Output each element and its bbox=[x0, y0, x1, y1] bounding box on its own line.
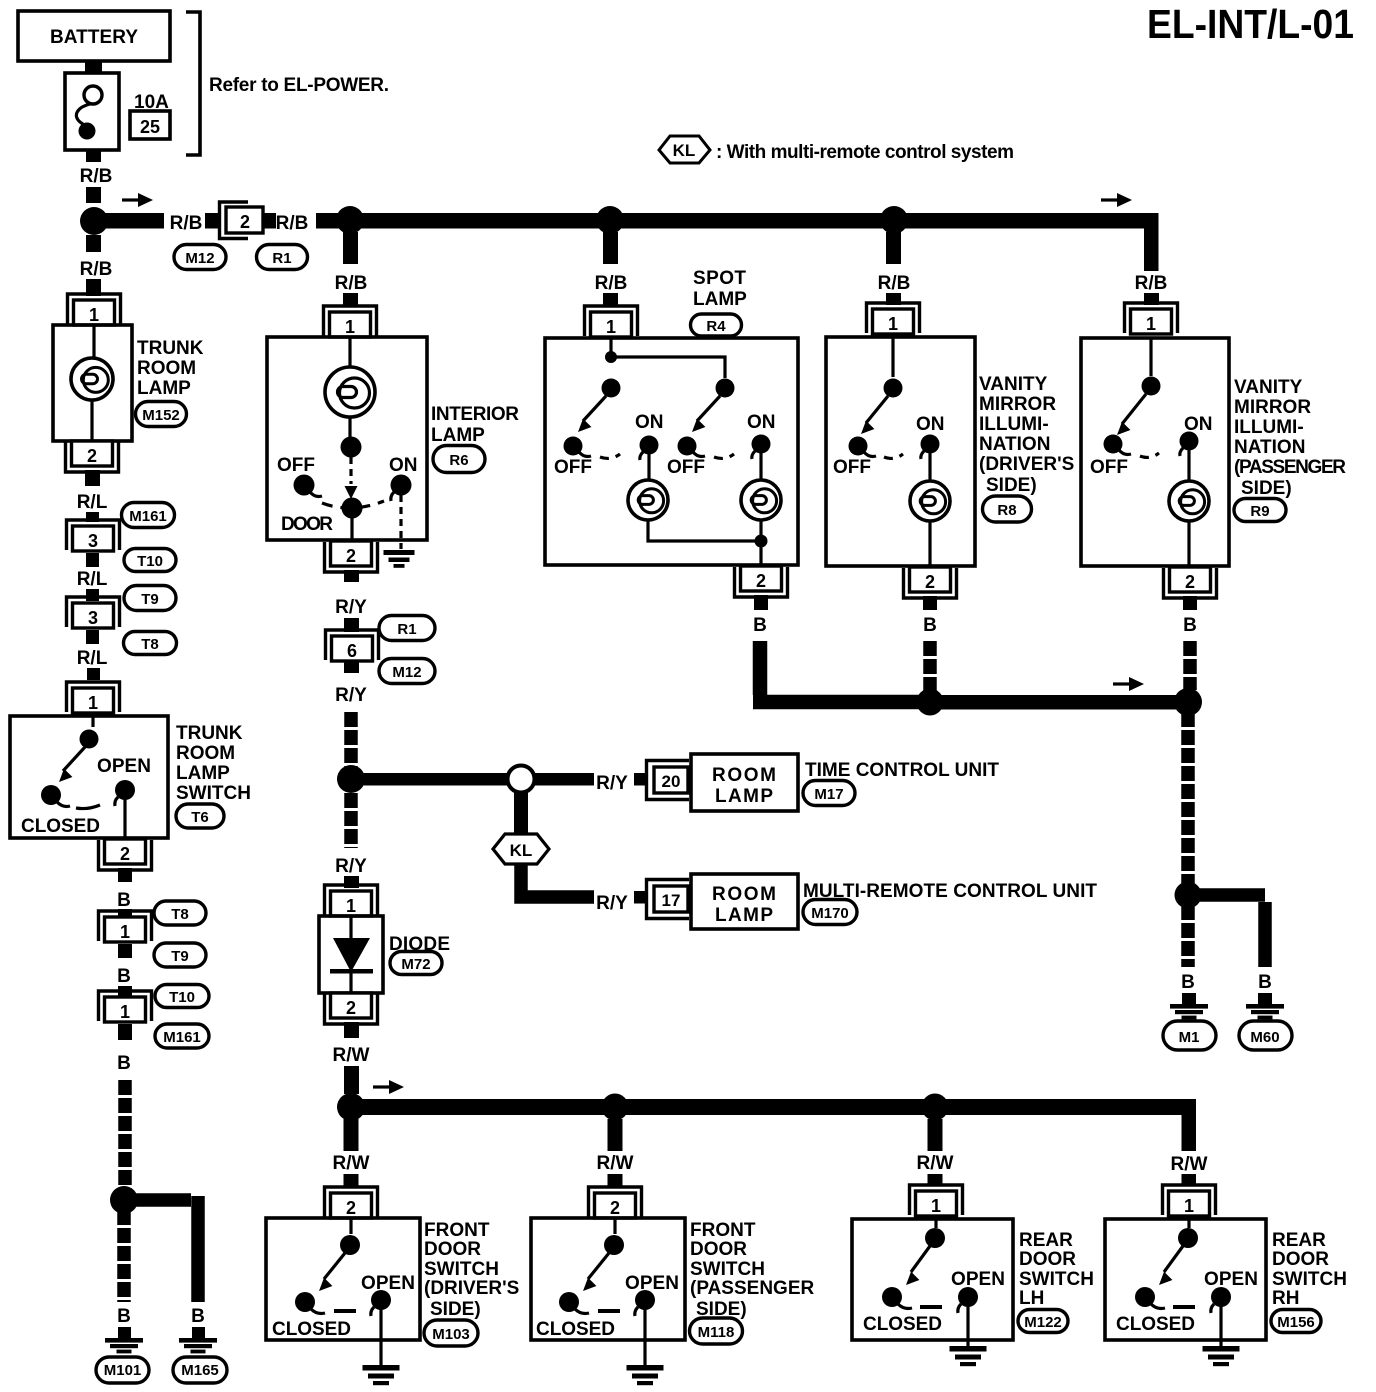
svg-text:: With multi-remote control sy: : With multi-remote control system bbox=[716, 142, 1014, 163]
connector 6 (R1/M12) bbox=[326, 630, 379, 661]
svg-text:NATION: NATION bbox=[979, 434, 1050, 455]
battery bbox=[18, 11, 170, 61]
connector pin 1 rear door switch RH bbox=[1163, 1185, 1216, 1216]
wire R/Y down bbox=[344, 661, 359, 673]
svg-text:FRONT: FRONT bbox=[690, 1220, 756, 1241]
node R/W junction rear LH bbox=[922, 1094, 949, 1121]
connector pin 2 front door switch passenger bbox=[589, 1187, 642, 1218]
wire bus segment 1 bbox=[94, 213, 164, 229]
node B junction bbox=[917, 689, 944, 716]
wire R/B down to vanity driver bbox=[886, 232, 901, 264]
svg-text:ILLUMI-: ILLUMI- bbox=[979, 414, 1049, 435]
svg-text:R/B: R/B bbox=[276, 213, 309, 234]
connector pin 1 vanity passenger bbox=[1125, 303, 1178, 334]
svg-text:20: 20 bbox=[662, 772, 681, 791]
wire down from open node to KL bbox=[514, 793, 528, 835]
svg-text:CLOSED: CLOSED bbox=[863, 1314, 942, 1335]
svg-text:17: 17 bbox=[662, 891, 681, 910]
svg-text:R6: R6 bbox=[449, 452, 468, 469]
spot lamp box R4 bbox=[545, 338, 798, 565]
svg-text:OPEN: OPEN bbox=[951, 1269, 1005, 1290]
svg-text:2: 2 bbox=[346, 998, 356, 1018]
rear door switch RH box M156 bbox=[1105, 1219, 1266, 1340]
svg-text:ROOM: ROOM bbox=[712, 884, 776, 905]
connector pin 2 diode bbox=[325, 993, 378, 1024]
svg-text:R/Y: R/Y bbox=[596, 893, 628, 914]
ref T6 bbox=[176, 804, 224, 828]
svg-text:M12: M12 bbox=[185, 250, 214, 267]
svg-text:1: 1 bbox=[88, 693, 98, 713]
connector pin 1 spot lamp bbox=[585, 306, 638, 337]
svg-text:R/B: R/B bbox=[335, 273, 368, 294]
ref M170 bbox=[803, 900, 857, 925]
svg-text:1: 1 bbox=[1146, 314, 1156, 334]
svg-text:CLOSED: CLOSED bbox=[272, 1319, 351, 1340]
svg-text:DOOR: DOOR bbox=[424, 1239, 481, 1260]
svg-text:ON: ON bbox=[916, 414, 945, 435]
svg-text:FRONT: FRONT bbox=[424, 1220, 490, 1241]
svg-text:1: 1 bbox=[89, 305, 99, 325]
ref R9 bbox=[1234, 499, 1286, 522]
wire B bbox=[118, 868, 132, 882]
svg-text:R/Y: R/Y bbox=[596, 773, 628, 794]
wire B below spot lamp bbox=[754, 595, 768, 610]
ground rear door switch RH bbox=[1219, 1305, 1222, 1346]
ground interior lamp bbox=[384, 550, 415, 568]
svg-text:M60: M60 bbox=[1250, 1029, 1279, 1046]
svg-text:SIDE): SIDE) bbox=[1241, 478, 1292, 499]
svg-text:TRUNK: TRUNK bbox=[176, 723, 243, 744]
svg-text:KL: KL bbox=[510, 841, 533, 860]
svg-text:LAMP: LAMP bbox=[715, 905, 773, 926]
svg-text:R/B: R/B bbox=[80, 259, 113, 280]
svg-text:LAMP: LAMP bbox=[693, 289, 747, 310]
svg-text:2: 2 bbox=[240, 212, 250, 232]
svg-text:R/L: R/L bbox=[77, 569, 108, 590]
svg-text:OFF: OFF bbox=[667, 457, 705, 478]
svg-text:OPEN: OPEN bbox=[97, 756, 151, 777]
svg-text:ROOM: ROOM bbox=[712, 765, 776, 786]
node R/W junction driver bbox=[337, 1093, 365, 1121]
svg-text:LAMP: LAMP bbox=[715, 786, 773, 807]
svg-text:(DRIVER'S: (DRIVER'S bbox=[979, 454, 1074, 475]
svg-text:M165: M165 bbox=[181, 1362, 219, 1379]
wire B down bbox=[1181, 712, 1195, 884]
svg-text:INTERIOR: INTERIOR bbox=[431, 404, 519, 425]
connector pin 1 trunk room lamp bbox=[68, 294, 121, 325]
svg-text:2: 2 bbox=[120, 844, 130, 864]
svg-text:R/B: R/B bbox=[878, 273, 911, 294]
svg-text:B: B bbox=[117, 1053, 131, 1074]
front door switch passenger side box M118 bbox=[531, 1218, 685, 1340]
svg-text:M156: M156 bbox=[1277, 1314, 1315, 1331]
connector pin 1 trunk room lamp switch bbox=[67, 682, 120, 713]
svg-text:B: B bbox=[1183, 615, 1197, 636]
KL option symbol bbox=[493, 834, 549, 864]
wire R/Y bbox=[344, 570, 359, 582]
svg-text:ROOM: ROOM bbox=[176, 743, 235, 764]
ground M60 bbox=[1258, 993, 1272, 1004]
node open junction (with KL option) bbox=[508, 766, 535, 793]
front door switch driver side box M103 bbox=[266, 1218, 420, 1340]
trunk room lamp switch T6 bbox=[10, 714, 168, 838]
ref M103 bbox=[424, 1320, 478, 1346]
connector 17 multi-remote control unit bbox=[647, 880, 690, 919]
arrow on R/W bus bbox=[373, 1080, 404, 1094]
connector 3 (M161/T10) bbox=[67, 520, 120, 551]
svg-text:SWITCH: SWITCH bbox=[1272, 1269, 1347, 1290]
svg-text:M161: M161 bbox=[163, 1029, 201, 1046]
svg-text:R/B: R/B bbox=[595, 273, 628, 294]
svg-text:M1: M1 bbox=[1179, 1029, 1200, 1046]
svg-text:ON: ON bbox=[1184, 414, 1213, 435]
connector pin 1 diode bbox=[325, 885, 378, 916]
svg-text:ROOM: ROOM bbox=[137, 358, 196, 379]
svg-text:CLOSED: CLOSED bbox=[21, 816, 100, 837]
wire stub to connector M12/R1 bbox=[205, 213, 219, 229]
node R/W junction passenger bbox=[602, 1094, 629, 1121]
wire B bus to right bbox=[937, 695, 1181, 710]
svg-text:B: B bbox=[1258, 972, 1272, 993]
svg-text:MIRROR: MIRROR bbox=[1234, 397, 1311, 418]
svg-text:M122: M122 bbox=[1024, 1314, 1062, 1331]
svg-text:R/L: R/L bbox=[77, 648, 108, 669]
svg-text:SIDE): SIDE) bbox=[986, 475, 1037, 496]
svg-text:ON: ON bbox=[747, 412, 776, 433]
svg-text:REAR: REAR bbox=[1272, 1230, 1326, 1251]
svg-text:T8: T8 bbox=[171, 906, 189, 923]
ground front door switch driver bbox=[379, 1308, 382, 1365]
left switch bbox=[602, 379, 621, 398]
svg-text:DOOR: DOOR bbox=[690, 1239, 747, 1260]
vanity mirror illumination passenger side box R9 bbox=[1081, 338, 1229, 566]
wire R/W down passenger bbox=[608, 1119, 623, 1151]
svg-text:2: 2 bbox=[610, 1198, 620, 1218]
bracket Refer to EL-POWER bbox=[186, 12, 389, 155]
svg-text:VANITY: VANITY bbox=[979, 374, 1048, 395]
svg-text:2: 2 bbox=[87, 446, 97, 466]
svg-text:T9: T9 bbox=[171, 948, 189, 965]
svg-text:R/Y: R/Y bbox=[335, 685, 367, 706]
svg-text:(PASSENGER: (PASSENGER bbox=[1234, 457, 1346, 478]
ref R8 bbox=[983, 496, 1032, 522]
svg-text:DOOR: DOOR bbox=[281, 514, 333, 535]
svg-text:R/W: R/W bbox=[333, 1153, 370, 1174]
svg-text:M101: M101 bbox=[104, 1362, 142, 1379]
multi-remote control unit box (ROOM LAMP) bbox=[691, 874, 798, 929]
svg-text:ILLUMI-: ILLUMI- bbox=[1234, 417, 1304, 438]
wire down to M101 bbox=[117, 1210, 131, 1302]
svg-text:OPEN: OPEN bbox=[625, 1273, 679, 1294]
svg-text:SIDE): SIDE) bbox=[430, 1299, 481, 1320]
fuse 10A 25 bbox=[65, 73, 170, 150]
node junction R/Y bbox=[337, 765, 365, 793]
svg-text:OPEN: OPEN bbox=[361, 1273, 415, 1294]
svg-text:R/L: R/L bbox=[77, 492, 108, 513]
svg-text:ON: ON bbox=[389, 455, 418, 476]
ref M72 bbox=[390, 952, 442, 975]
wire R/L bbox=[86, 630, 99, 644]
wire R/W down driver bbox=[344, 1119, 359, 1151]
wire battery to fuse bbox=[85, 61, 102, 73]
svg-text:R/B: R/B bbox=[80, 166, 113, 187]
svg-text:2: 2 bbox=[925, 572, 935, 592]
ground M165 bbox=[192, 1327, 205, 1338]
ref M118 bbox=[690, 1318, 743, 1344]
svg-text:M72: M72 bbox=[401, 956, 430, 973]
svg-text:2: 2 bbox=[1185, 572, 1195, 592]
wire B below vanity driver bbox=[923, 596, 937, 610]
svg-text:1: 1 bbox=[931, 1196, 941, 1216]
ref M152 bbox=[136, 402, 187, 427]
svg-text:R/W: R/W bbox=[333, 1045, 370, 1066]
connector pin 2 trunk room lamp switch bbox=[99, 839, 152, 870]
ref M122 bbox=[1018, 1310, 1068, 1333]
svg-text:KL: KL bbox=[673, 141, 696, 160]
connector 1 (T10/M161) bbox=[99, 991, 152, 1022]
svg-text:VANITY: VANITY bbox=[1234, 377, 1303, 398]
svg-text:R/Y: R/Y bbox=[335, 597, 367, 618]
wire KL down and right to multi-remote bbox=[521, 864, 594, 897]
wire R/Y to time control unit bbox=[535, 773, 594, 786]
svg-text:DOOR: DOOR bbox=[1272, 1249, 1329, 1270]
svg-text:R/B: R/B bbox=[1135, 273, 1168, 294]
connector pin 2 vanity driver bbox=[904, 567, 957, 598]
connector pin 1 rear door switch LH bbox=[910, 1185, 963, 1216]
KL legend symbol bbox=[659, 136, 1014, 163]
svg-text:EL-INT/L-01: EL-INT/L-01 bbox=[1147, 1, 1354, 47]
connector pin 2 vanity passenger bbox=[1164, 567, 1217, 598]
wire branch to M60 bbox=[1195, 895, 1265, 967]
svg-text:OFF: OFF bbox=[277, 455, 315, 476]
wire stub after connector bbox=[263, 213, 276, 229]
svg-text:M170: M170 bbox=[811, 905, 849, 922]
svg-text:B: B bbox=[1181, 972, 1195, 993]
svg-text:6: 6 bbox=[347, 641, 357, 661]
wire R/W down rear LH bbox=[928, 1119, 943, 1151]
svg-text:R/W: R/W bbox=[917, 1153, 954, 1174]
svg-text:OFF: OFF bbox=[833, 457, 871, 478]
svg-text:M12: M12 bbox=[392, 664, 421, 681]
svg-text:1: 1 bbox=[120, 1002, 130, 1022]
vanity mirror illumination driver side box R8 bbox=[826, 337, 975, 566]
time control unit box (ROOM LAMP) bbox=[691, 754, 798, 811]
svg-text:OPEN: OPEN bbox=[1204, 1269, 1258, 1290]
diode M72 bbox=[319, 916, 383, 993]
connector 1 (T8/T9) bbox=[99, 911, 152, 942]
svg-text:T6: T6 bbox=[191, 809, 209, 826]
svg-text:R1: R1 bbox=[397, 621, 416, 638]
svg-text:R8: R8 bbox=[997, 502, 1016, 519]
connector pin 2 interior lamp bbox=[325, 541, 378, 572]
ground M101 bbox=[118, 1327, 131, 1338]
svg-text:T10: T10 bbox=[169, 989, 195, 1006]
connector pin 2 front door switch driver bbox=[325, 1187, 378, 1218]
arrow right near bus corner bbox=[1101, 193, 1132, 207]
wire R/W corner down to rear RH bbox=[1182, 1115, 1197, 1151]
svg-text:OFF: OFF bbox=[554, 457, 592, 478]
wire R/L bbox=[86, 553, 99, 567]
svg-text:R4: R4 bbox=[706, 318, 726, 335]
node bus junction spot lamp bbox=[596, 206, 624, 234]
svg-text:3: 3 bbox=[88, 608, 98, 628]
svg-text:ON: ON bbox=[635, 412, 664, 433]
svg-text:SPOT: SPOT bbox=[693, 268, 746, 289]
node bus junction interior lamp bbox=[336, 206, 364, 234]
wire B bbox=[118, 944, 132, 958]
wire R/L bbox=[85, 470, 100, 486]
svg-text:R1: R1 bbox=[272, 250, 291, 267]
svg-text:OFF: OFF bbox=[1090, 457, 1128, 478]
right switch bbox=[716, 379, 735, 398]
svg-text:25: 25 bbox=[140, 117, 160, 137]
ground M1 bbox=[1182, 993, 1196, 1004]
svg-text:1: 1 bbox=[345, 317, 355, 337]
svg-text:MIRROR: MIRROR bbox=[979, 394, 1056, 415]
svg-text:M161: M161 bbox=[129, 508, 167, 525]
svg-text:SWITCH: SWITCH bbox=[1019, 1269, 1094, 1290]
svg-text:B: B bbox=[753, 615, 767, 636]
svg-text:2: 2 bbox=[346, 546, 356, 566]
svg-text:R/W: R/W bbox=[597, 1153, 634, 1174]
connector 2 (M12/R1) bbox=[220, 202, 264, 239]
connector 3 (T9/T8) bbox=[67, 597, 120, 628]
svg-text:LAMP: LAMP bbox=[176, 763, 230, 784]
svg-text:B: B bbox=[191, 1306, 205, 1327]
svg-text:3: 3 bbox=[88, 531, 98, 551]
svg-text:M17: M17 bbox=[814, 786, 843, 803]
svg-text:R/B: R/B bbox=[170, 213, 203, 234]
connector pin 2 spot lamp bbox=[735, 566, 788, 597]
svg-text:T8: T8 bbox=[141, 636, 159, 653]
trunk room lamp M152 bbox=[53, 325, 132, 441]
svg-text:LAMP: LAMP bbox=[431, 425, 485, 446]
wire R/Y down to diode bbox=[344, 793, 358, 848]
wire bus corner down to vanity passenger bbox=[1144, 213, 1159, 271]
node bus junction vanity driver bbox=[880, 206, 908, 234]
svg-text:1: 1 bbox=[120, 922, 130, 942]
svg-text:R/W: R/W bbox=[1171, 1154, 1208, 1175]
svg-text:R9: R9 bbox=[1250, 503, 1269, 520]
connector pin 1 vanity driver bbox=[867, 303, 920, 334]
svg-text:B: B bbox=[117, 1306, 131, 1327]
wire R/B down to trunk room lamp bbox=[86, 235, 101, 252]
svg-text:1: 1 bbox=[1184, 1196, 1194, 1216]
connector pin 2 trunk room lamp bbox=[66, 441, 119, 472]
node junction B trunk grounds bbox=[110, 1186, 138, 1214]
wire R/Y to open node bbox=[360, 773, 507, 786]
svg-text:REAR: REAR bbox=[1019, 1230, 1073, 1251]
svg-text:1: 1 bbox=[346, 896, 356, 916]
wire R/B down to spot lamp bbox=[603, 232, 618, 264]
svg-text:T9: T9 bbox=[141, 591, 159, 608]
ref R6 bbox=[433, 446, 485, 473]
node B bus right junction bbox=[1174, 688, 1202, 716]
svg-text:CLOSED: CLOSED bbox=[1116, 1314, 1195, 1335]
svg-text:1: 1 bbox=[606, 317, 616, 337]
svg-text:B: B bbox=[117, 890, 131, 911]
svg-text:DOOR: DOOR bbox=[1019, 1249, 1076, 1270]
svg-text:SWITCH: SWITCH bbox=[690, 1259, 765, 1280]
svg-text:(DRIVER'S: (DRIVER'S bbox=[424, 1278, 519, 1299]
svg-text:B: B bbox=[117, 966, 131, 987]
svg-text:NATION: NATION bbox=[1234, 437, 1305, 458]
svg-text:M118: M118 bbox=[698, 1324, 735, 1341]
wire fuse to junction R/B bbox=[86, 150, 101, 162]
svg-text:SWITCH: SWITCH bbox=[424, 1259, 499, 1280]
svg-text:2: 2 bbox=[756, 571, 766, 591]
ground rear door switch LH bbox=[966, 1305, 969, 1346]
wire R/W down bbox=[344, 1022, 359, 1038]
connector pin 1 interior lamp bbox=[324, 306, 377, 337]
svg-text:T10: T10 bbox=[137, 553, 163, 570]
svg-text:TRUNK: TRUNK bbox=[137, 338, 204, 359]
node B ground junction bbox=[1175, 882, 1202, 909]
ref R4 bbox=[691, 314, 742, 336]
svg-text:RH: RH bbox=[1272, 1288, 1299, 1309]
connector 20 time control unit bbox=[647, 761, 690, 800]
ref M17 bbox=[803, 781, 855, 806]
ground front door switch passenger bbox=[643, 1308, 646, 1365]
svg-text:B: B bbox=[923, 615, 937, 636]
svg-text:(PASSENGER: (PASSENGER bbox=[690, 1278, 815, 1299]
wire down to M1 bbox=[1181, 905, 1195, 967]
ref M156 bbox=[1271, 1310, 1321, 1333]
arrow on B bus bbox=[1113, 677, 1144, 691]
svg-text:R/Y: R/Y bbox=[335, 856, 367, 877]
svg-text:LAMP: LAMP bbox=[137, 378, 191, 399]
arrow right on feed bbox=[122, 193, 153, 207]
wire branch to M165 bbox=[131, 1196, 198, 1302]
wire B long down bbox=[118, 1024, 132, 1040]
node main R/B junction at fuse bbox=[80, 207, 108, 235]
svg-text:Refer to EL-POWER.: Refer to EL-POWER. bbox=[209, 75, 389, 96]
wire B below vanity passenger bbox=[1183, 596, 1197, 610]
svg-text:M103: M103 bbox=[432, 1326, 470, 1343]
rear door switch LH box M122 bbox=[852, 1219, 1013, 1340]
svg-text:TIME CONTROL UNIT: TIME CONTROL UNIT bbox=[805, 760, 999, 781]
svg-text:BATTERY: BATTERY bbox=[50, 27, 138, 48]
svg-text:LH: LH bbox=[1019, 1288, 1044, 1309]
svg-text:CLOSED: CLOSED bbox=[536, 1319, 615, 1340]
svg-text:SWITCH: SWITCH bbox=[176, 783, 251, 804]
wire R/B down to interior lamp bbox=[343, 232, 358, 264]
svg-text:2: 2 bbox=[346, 1198, 356, 1218]
interior lamp R6 bbox=[267, 337, 427, 549]
svg-text:M152: M152 bbox=[142, 407, 180, 424]
wire main bus bbox=[316, 213, 1158, 229]
svg-text:1: 1 bbox=[888, 314, 898, 334]
wire R/W bus bbox=[351, 1099, 1196, 1115]
